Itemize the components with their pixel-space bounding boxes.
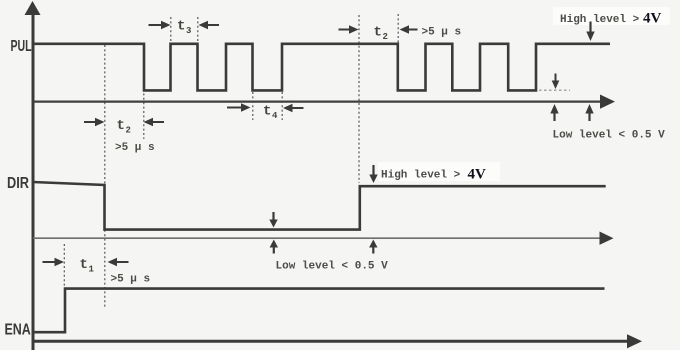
DIR baseline axis xyxy=(33,237,601,239)
dotted guide x=105 xyxy=(104,45,106,308)
svg-text:t: t xyxy=(117,118,125,134)
svg-text:ENA.: ENA. xyxy=(5,321,35,339)
svg-text:High level >: High level > xyxy=(381,170,461,182)
svg-text:2: 2 xyxy=(383,32,388,42)
dotted guide x=398 xyxy=(397,14,399,43)
t2 right arrow-in right xyxy=(339,29,350,31)
t3 arrow-in left xyxy=(207,24,219,26)
DIR waveform xyxy=(33,182,606,230)
label box top right xyxy=(553,7,670,25)
up arrow 1 at DIR axis xyxy=(273,247,275,254)
svg-text:PUL: PUL xyxy=(11,37,32,55)
svg-text:3: 3 xyxy=(186,26,191,36)
svg-text:4: 4 xyxy=(272,111,278,121)
up arrow 2 at PUL axis xyxy=(588,113,590,121)
svg-text:>5 µ s: >5 µ s xyxy=(422,27,462,39)
svg-text:t: t xyxy=(177,19,185,35)
svg-text:Low level < 0.5 V: Low level < 0.5 V xyxy=(276,261,389,273)
dotted guide x=359 xyxy=(358,15,360,183)
t3 arrow-in right xyxy=(149,24,162,26)
svg-text:>5 µ s: >5 µ s xyxy=(111,274,151,286)
dotted guide x=144 xyxy=(143,45,145,139)
t1 arrow-in right xyxy=(43,261,56,263)
t2 left arrow-in right xyxy=(84,121,96,123)
dotted guide x=171 xyxy=(170,17,172,43)
up arrow 1 at PUL axis xyxy=(553,113,555,121)
small down arrow to PUL low xyxy=(555,74,557,82)
t2 right arrow-in left xyxy=(409,29,418,31)
svg-text:1: 1 xyxy=(89,265,95,275)
DIR axis arrowhead xyxy=(600,232,614,245)
svg-text:DIR: DIR xyxy=(7,175,30,193)
y-axis xyxy=(32,14,35,350)
svg-text:Low level < 0.5 V: Low level < 0.5 V xyxy=(553,130,666,142)
svg-text:t: t xyxy=(80,257,88,273)
PUL axis arrowhead xyxy=(600,95,615,109)
dotted guide x=282 xyxy=(281,92,283,120)
svg-text:4V: 4V xyxy=(468,167,487,183)
svg-text:2: 2 xyxy=(126,126,131,136)
ENA baseline axis xyxy=(33,340,628,343)
down arrow to DIR high xyxy=(372,165,374,175)
dotted level guide right of pulses xyxy=(539,89,570,91)
down arrow to DIR low xyxy=(272,212,274,220)
t4 arrow-in right xyxy=(227,107,241,109)
svg-text:t: t xyxy=(374,25,382,41)
dotted guide x=198 xyxy=(197,17,199,43)
dotted guide x=64 xyxy=(63,244,65,287)
up arrow 2 at DIR axis xyxy=(372,247,374,254)
ENA waveform xyxy=(33,289,605,333)
svg-text:>5 µ s: >5 µ s xyxy=(115,142,155,154)
ENA axis arrowhead xyxy=(627,334,642,348)
dotted guide x=253 xyxy=(252,92,254,120)
t2 left arrow-in left xyxy=(152,121,164,123)
PUL baseline axis xyxy=(33,100,602,102)
t1 arrow-in left xyxy=(117,261,129,263)
down arrow to PUL high xyxy=(589,22,591,33)
label box DIR high xyxy=(378,162,500,181)
y-axis arrowhead xyxy=(25,1,41,15)
svg-text:t: t xyxy=(263,104,271,120)
PUL waveform xyxy=(33,44,610,91)
svg-text:High level >: High level > xyxy=(560,14,640,26)
svg-text:4V: 4V xyxy=(643,11,662,27)
t4 arrow-in left xyxy=(292,107,304,109)
